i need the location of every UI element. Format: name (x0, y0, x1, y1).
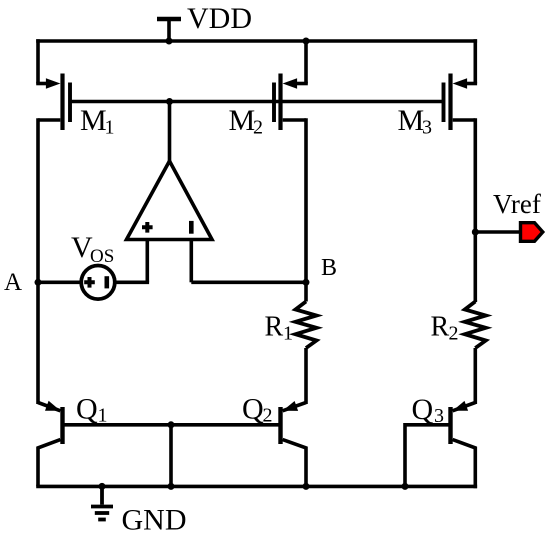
transistor M1 (PMOS) (36, 74, 70, 131)
wire node A to Vos (38, 280, 82, 284)
svg-text:Q: Q (412, 393, 434, 426)
wire Vos to op-amp + input (114, 280, 149, 284)
svg-text:M: M (80, 104, 107, 137)
transistor Q3 (PNP, diode-connected) (405, 403, 475, 489)
wire gate rail M1-M2-M3 (70, 100, 444, 104)
junction: VDD tap on top rail (166, 38, 173, 45)
svg-text:Vref: Vref (493, 189, 541, 219)
wire Vref tap (475, 230, 521, 234)
wire M1 source drop (36, 39, 40, 83)
wire M2 drain to node B (304, 118, 308, 283)
junction: op-amp output on gate rail (166, 98, 173, 105)
svg-text:2: 2 (449, 323, 459, 345)
junction: M2 source branch on top rail (303, 38, 310, 45)
svg-text:R: R (265, 312, 284, 343)
svg-text:3: 3 (422, 117, 432, 139)
junction dot GND tap (99, 483, 106, 490)
svg-text:3: 3 (434, 405, 444, 427)
svg-text:2: 2 (263, 405, 273, 427)
svg-text:Q: Q (76, 393, 98, 426)
junction dot node A (35, 279, 42, 286)
transistor M2 (PMOS) (274, 74, 308, 131)
Vref output flag (red) (521, 223, 543, 242)
wire base tie down to ground (169, 425, 173, 487)
wire M2 source drop (304, 39, 308, 83)
svg-text:M: M (229, 104, 256, 137)
junction dot Q3 base tie on ground rail (402, 483, 409, 490)
junction dot base tie top (168, 421, 175, 428)
svg-text:R: R (431, 312, 450, 343)
wire base rail Q1-Q2 (63, 423, 281, 427)
svg-text:VDD: VDD (187, 2, 252, 35)
junction dot node B (303, 279, 310, 286)
power VDD symbol (157, 19, 181, 41)
wire M3 drain down through Vref to R2 (473, 118, 477, 302)
resistor R1 (296, 282, 317, 404)
transistor Q1 (PNP, diode-connected) (38, 403, 63, 487)
junction dot Q2 collector on ground rail (303, 483, 310, 490)
transistor M3 (PMOS) (444, 74, 478, 131)
svg-text:OS: OS (90, 246, 114, 267)
op-amp U1 (127, 103, 213, 282)
svg-text:Q: Q (242, 393, 264, 426)
svg-text:M: M (398, 104, 425, 137)
svg-text:B: B (321, 255, 337, 281)
svg-text:A: A (4, 269, 22, 296)
wire M1 drain / node A rail down to Q1 (36, 118, 40, 404)
transistor Q2 (PNP, diode-connected) (281, 403, 307, 487)
wire M3 source drop (473, 39, 477, 83)
svg-text:2: 2 (253, 117, 263, 139)
resistor R2 (465, 300, 486, 404)
svg-text:1: 1 (283, 323, 293, 345)
wire top rail (36, 39, 477, 43)
ground symbol (91, 486, 113, 519)
svg-text:GND: GND (122, 504, 187, 537)
junction dot Vref (472, 229, 479, 236)
junction dot base tie bottom (168, 483, 175, 490)
svg-text:1: 1 (105, 117, 115, 139)
ground rail (36, 485, 477, 489)
wire op-amp - input to node B (191, 280, 306, 284)
offset source VOS (81, 266, 115, 300)
